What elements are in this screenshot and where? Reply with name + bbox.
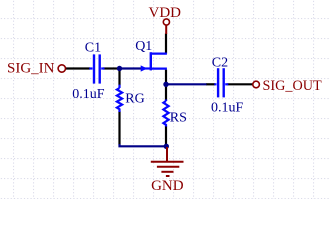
svg-text:RS: RS — [170, 111, 187, 126]
svg-text:VDD: VDD — [149, 5, 182, 21]
svg-text:C1: C1 — [85, 41, 101, 56]
svg-text:0.1uF: 0.1uF — [72, 87, 105, 102]
svg-text:Q1: Q1 — [135, 39, 152, 54]
svg-text:C2: C2 — [212, 56, 228, 71]
svg-text:RG: RG — [125, 91, 144, 106]
svg-text:SIG_OUT: SIG_OUT — [263, 78, 322, 94]
svg-text:GND: GND — [151, 178, 184, 194]
svg-text:SIG_IN: SIG_IN — [7, 60, 55, 76]
svg-text:0.1uF: 0.1uF — [211, 100, 244, 115]
